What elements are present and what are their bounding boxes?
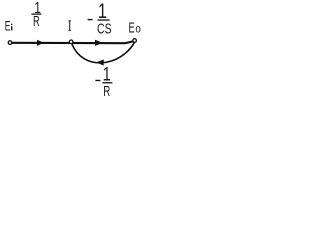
node Eo circle: [133, 39, 137, 43]
label 1/R fraction bar: [31, 14, 41, 15]
arrowhead feedback branch: [96, 60, 104, 66]
node I circle: [69, 40, 73, 44]
label -1/R fraction bar: [103, 82, 113, 83]
svg-text:1: 1: [103, 62, 111, 85]
svg-text:o: o: [135, 23, 140, 36]
label I: [68, 21, 71, 30]
svg-text:R: R: [103, 83, 110, 98]
label Eo: [129, 19, 141, 36]
node Ei circle: [8, 41, 12, 45]
svg-text:E: E: [129, 19, 135, 36]
label -1/CS fraction bar: [98, 19, 110, 20]
arrowhead branch -1/CS: [95, 40, 103, 46]
svg-text:R: R: [33, 13, 40, 30]
svg-text:E: E: [5, 20, 11, 34]
label -1/R minus sign: [95, 80, 100, 81]
wire: feedback arc Eo->I: [72, 43, 135, 63]
label Ei: [5, 20, 13, 34]
label -1/CS minus sign: [88, 19, 93, 20]
arrowhead branch 1/R: [37, 40, 44, 46]
wire: main branch line Ei->I->Eo: [12, 41, 134, 43]
svg-text:CS: CS: [97, 21, 112, 37]
